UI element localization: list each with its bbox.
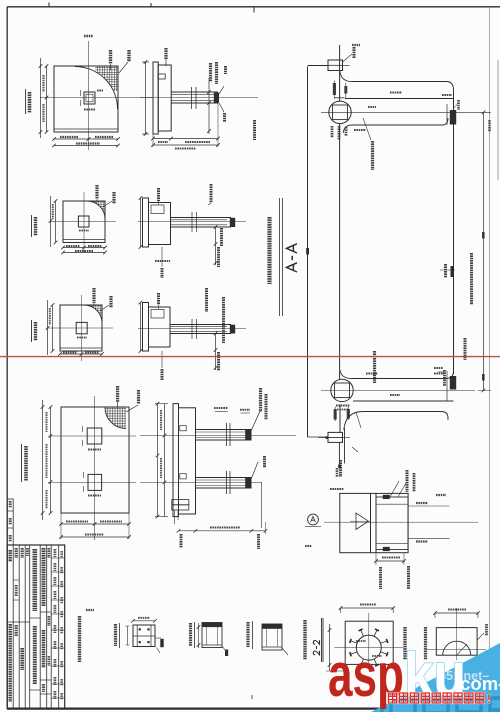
section 4 bottom leader labels: [180, 534, 183, 548]
plan J-3 arc leader: [100, 305, 109, 311]
A-A top beam lines: [345, 98, 454, 100]
detail bolt lines extending right: [408, 505, 449, 507]
plan J-4 left dims: [50, 407, 52, 513]
A-A bottom leader arrow: [356, 412, 361, 428]
2-2 center circle: [356, 635, 381, 660]
label J-1 foundation (rotated): [25, 89, 27, 114]
detail D3 plate: [262, 624, 282, 650]
A-A bottom beam bottom edge with fillets: [344, 412, 448, 431]
A-A mast column line: [339, 45, 341, 101]
plan J-1 axis top label: [84, 35, 93, 37]
right detail label (rotated): [424, 627, 427, 660]
section 3 stirrup ticks: [191, 319, 193, 339]
label J-2 foundation (rotated): [31, 215, 33, 237]
2-2 note label column (rotated): [303, 620, 306, 660]
A-A vertical label above bottom beam: [373, 351, 376, 383]
svg-text:.com–: .com–: [455, 673, 500, 694]
section 1 footing body: [158, 65, 171, 131]
detail EC-2 top dim: [133, 620, 155, 622]
A-A right top leader near beam end: [457, 100, 460, 110]
note text column (rotated chinese): [267, 217, 271, 284]
right detail plate rect: [436, 628, 477, 656]
section 4 stem 1 anchor blob: [245, 430, 251, 440]
section 2 centerline: [138, 221, 246, 223]
detail D2 plate: [202, 623, 222, 648]
right detail leader: [477, 633, 484, 640]
plan J-4 corner quarter disc: [105, 408, 126, 429]
detail centerline horizontal: [324, 521, 478, 523]
A-A left boundary small mark: [306, 248, 309, 255]
section 1 top notch: [158, 74, 165, 79]
detail EC-2 left bracket: [127, 626, 129, 645]
A-A right wall line: [453, 90, 455, 374]
plan J-3 top leader: [92, 288, 95, 303]
2-2 left dim: [329, 624, 331, 671]
section 2 stem anchor blob: [230, 218, 235, 227]
2-2 inner dim labels: [356, 640, 366, 642]
A-A right vertical label 2: [464, 338, 467, 360]
A-A bottom beam top edge: [340, 370, 454, 379]
section 1 left dim line: [145, 62, 147, 134]
section 1 stirrup ticks: [191, 87, 193, 109]
section 1 centerline: [140, 97, 258, 99]
plan J-3 corner arc: [84, 305, 102, 323]
plan J-1 corner arc: [75, 67, 118, 110]
section 1 footing slab: [153, 62, 158, 134]
section 4 footing slab: [173, 404, 179, 517]
A-A bottom beam lines: [353, 400, 454, 402]
title block col D texts: [26, 548, 29, 556]
A-A top circle inner plate: [333, 105, 348, 120]
right detail centerline: [456, 608, 458, 660]
A-A bottom column circle: [331, 379, 353, 401]
section 2 footing slab: [143, 198, 149, 247]
A-A top flange plate: [328, 60, 343, 71]
section 2 top leaders: [157, 188, 160, 201]
2-2 right label column (rotated): [403, 627, 406, 660]
plan J-3 centerlines: [47, 327, 113, 329]
title block date cells texts: [60, 551, 63, 558]
right detail semicircle: [443, 641, 471, 655]
A-A bottom beam right end blob: [450, 376, 456, 390]
A-A top plate leader: [343, 54, 353, 62]
title block rotated drawing number text: [8, 550, 11, 562]
plan J-3 bottom dims: [60, 353, 102, 355]
A-A top leader labels: [352, 44, 360, 46]
plan J-1 column pedestal square: [84, 92, 95, 104]
plan J-1 left dimension lines: [46, 66, 48, 132]
plan J-3 left dims: [52, 305, 54, 351]
section 4 stem 2 anchor blob: [245, 478, 251, 488]
detail EC-2 label (rotated): [114, 624, 117, 646]
plan J-1 hatch grid: [95, 66, 118, 91]
detail D2 label (rotated): [189, 623, 192, 646]
A-A top beam top edge with fillets: [340, 72, 454, 91]
plan J-3 pedestal square: [76, 322, 87, 333]
section 3 footing body: [149, 307, 171, 347]
plan J-2 top leader: [95, 185, 98, 199]
section 3 stem anchor blob: [230, 325, 235, 334]
A-A beam top labels: [390, 92, 402, 94]
plan J-1 centerlines: [40, 97, 152, 99]
detail base plate web double lines: [370, 493, 372, 552]
section 1 right leader labels: [209, 63, 212, 82]
A-A grouting leader: [363, 118, 371, 140]
section 4 centerline 1: [140, 435, 296, 437]
section 4 anchor plates bottom: [172, 500, 189, 505]
detail bottom rotated labels: [379, 567, 382, 589]
circled A detail mark: [308, 514, 319, 525]
A-A pedestal edge below beam: [344, 428, 346, 463]
detail D3 label (rotated): [246, 622, 249, 647]
sheet border left: [6, 7, 8, 709]
plan J-2 corner arc: [87, 201, 105, 219]
detail top leaders: [390, 481, 399, 497]
2-2 radial bolts: [350, 629, 388, 666]
section 1 column stem: [171, 91, 218, 93]
right detail horizontal centerline: [427, 649, 486, 651]
section 2 footing body: [149, 203, 171, 245]
title block horizontal dividers right cols: [51, 557, 64, 559]
section 3 column stem: [170, 324, 231, 326]
title block col B texts: [15, 548, 18, 558]
plan J-4 hatch: [104, 408, 126, 430]
A-A left boundary bottom tick: [308, 436, 327, 438]
A-A beam right end blob top: [450, 110, 456, 125]
plan J-4 footing outline: [61, 407, 129, 513]
section 3 top leaders: [157, 293, 160, 305]
A-A title text (rotated, drawn as strokes): [287, 244, 298, 272]
A-A bottom plate centerline: [318, 437, 350, 439]
plan J-2 centerlines: [50, 221, 116, 223]
svg-text:!: !: [487, 692, 491, 706]
section 4 bottom dim: [179, 530, 266, 532]
label J-3 foundation (rotated): [31, 320, 33, 342]
plan J-2 hatch: [87, 201, 105, 219]
section 1 lower right leader: [219, 103, 224, 112]
detail section cut triangle: [356, 513, 369, 530]
section 3 bottom leader: [161, 351, 163, 368]
A-A top centerline horizontal: [321, 111, 491, 113]
plan J-4 pedestal square 2: [88, 474, 102, 490]
title block upper strip cells: [7, 499, 13, 545]
detail base plate inner box: [376, 497, 408, 550]
detail D3 leader: [282, 648, 288, 655]
plan J-4 top leaders: [116, 386, 119, 402]
section 2 bottom leader: [161, 247, 163, 267]
detail EC-2 plate square: [133, 625, 155, 647]
section 2 stirrup ticks: [191, 212, 193, 232]
section 2 left dim: [140, 198, 142, 247]
section 3 right dim and labels: [215, 334, 217, 371]
detail tee symbol right: [436, 494, 446, 496]
section 4 stem1 right leaders: [252, 411, 261, 430]
section 4 drop line to detail: [261, 482, 263, 528]
plan J-1 top leader label: [109, 50, 112, 64]
plan J-4 centerlines: [48, 435, 136, 437]
tiny text near title block top: [305, 545, 312, 547]
misc vertical label right of section 1: [253, 120, 256, 140]
bottom tick mark: [251, 695, 253, 699]
title block horizontal dividers mid cols: [30, 617, 41, 619]
section 3 footing slab: [143, 303, 149, 352]
plan J-3 footing outline: [60, 305, 102, 351]
section 4 left dims: [157, 404, 159, 517]
title block horizontal dividers left cols: [7, 621, 30, 623]
label J-4(J-4a) foundation (rotated): [21, 444, 23, 482]
2-2 top dim bracket: [341, 607, 394, 609]
2-2 title double underline: [321, 618, 323, 662]
detail base plate outer rect: [340, 493, 408, 552]
title block project column: [42, 548, 46, 606]
plan J-2 pedestal square: [78, 216, 89, 227]
A-A title underline double line: [279, 198, 281, 316]
A-A top connection line: [308, 65, 329, 67]
section 1 top leader label: [164, 48, 167, 60]
watermark red chinese slogan pseudo-glyphs: [389, 693, 484, 703]
A-A mast below flange: [338, 442, 340, 466]
section 4 stem band 1: [196, 429, 252, 431]
plan J-1 hatch leader label: [127, 50, 130, 62]
plan J-2 left dims: [55, 201, 57, 243]
watermark faint site glyphs on blue: [358, 698, 500, 712]
plan J-4 bottom dims: [61, 523, 129, 525]
A-A bottom centerline horizontal: [321, 389, 475, 391]
title block drawing name text: [21, 548, 24, 558]
section 3 centerline: [138, 328, 246, 330]
plan J-4 pedestal square 1: [87, 428, 102, 444]
2-2 outer square: [345, 621, 393, 664]
section 4 notch 1: [180, 426, 186, 431]
plan J-1 pedestal dim ticks: [80, 90, 82, 96]
detail D2 left dim: [198, 623, 200, 648]
section 4 stem2 right leaders: [252, 462, 259, 478]
detail EC-2 leader and blob: [155, 637, 161, 639]
title block vertical dividers: [12, 545, 14, 709]
section 1 right dim line: [208, 78, 210, 134]
A-A top beam bottom edge: [343, 118, 448, 133]
section 4 footing body: [179, 408, 196, 514]
A-A bottom vertical label: [339, 460, 342, 477]
A-A right dim line: [483, 112, 485, 390]
A-A left boundary line: [307, 67, 309, 438]
title block signature cells texts: [54, 549, 57, 557]
A-A bottom circle inner plate: [335, 383, 350, 398]
plan J-1 footing outline: [54, 66, 118, 132]
section 2 notch: [151, 205, 164, 214]
small note text: [86, 609, 94, 611]
plan J-3 hatch: [84, 305, 102, 323]
2-2 centerlines: [334, 647, 403, 649]
sheet border top: [7, 6, 500, 8]
section 4 notch 2: [180, 474, 186, 479]
right dim extension line: [497, 60, 499, 180]
section 3 left dim: [140, 303, 142, 352]
title block col G texts: [48, 548, 51, 558]
border tick marks: [48, 3, 50, 8]
A-A bottom flange plate: [328, 432, 343, 442]
note text right of title block: [78, 616, 81, 662]
detail left small label: [330, 488, 344, 490]
sheet border bottom: [7, 707, 500, 709]
section 4 stirrup ticks: [226, 423, 228, 446]
plan J-2 bottom dims: [63, 247, 105, 249]
A-A top column circle: [329, 101, 351, 123]
section 4 centerline 2: [140, 481, 262, 483]
A-A bottom anchor bolt marks: [334, 409, 337, 420]
section 2 column stem: [171, 217, 232, 219]
section 1 bottom dims: [153, 138, 218, 140]
section 1 stem end anchor blob: [214, 93, 219, 103]
plan J-1 bottom dimension lines: [54, 138, 118, 140]
2-2 title text (rotated, drawn as strokes): [313, 640, 319, 655]
title block company name column: [32, 549, 37, 611]
right detail top dim bracket: [435, 612, 478, 614]
title block outer rect: [7, 545, 64, 709]
section 2 right dim and labels: [215, 227, 217, 265]
A-A labels below top circle: [331, 126, 334, 138]
A-A mid-span stiffener marks: [444, 264, 447, 278]
A-A bottom circle labels: [336, 405, 350, 407]
detail D2 leader: [222, 646, 228, 654]
detail bottom dim: [375, 553, 377, 565]
red reference line: [0, 356, 500, 358]
right detail radial line: [457, 644, 467, 655]
A-A bottom beam labels: [366, 373, 378, 375]
detail bolts: [383, 495, 390, 499]
plan J-2 arc leader: [103, 201, 112, 207]
plan J-2 footing outline: [63, 201, 105, 243]
sheet border right: [489, 7, 491, 712]
section 3 notch: [151, 310, 164, 319]
section 4 stem band 2: [196, 477, 252, 479]
A-A right vertical label 1: [470, 253, 473, 305]
A-A top anchor bolt marks: [333, 83, 336, 95]
A-A tee mark left of bottom blob: [434, 367, 443, 369]
